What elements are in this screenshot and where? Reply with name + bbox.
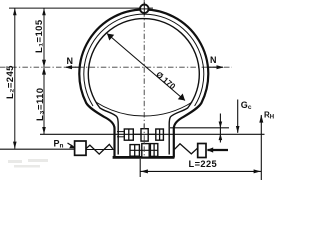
coil stubs left (117, 131, 125, 133)
svg-text:N: N (210, 55, 217, 65)
dimension gap arrows (219, 114, 221, 143)
coil F (150, 144, 157, 157)
wire through coils (130, 149, 158, 151)
spring right (175, 144, 198, 154)
force arrow N right (208, 66, 223, 68)
base slab (113, 156, 175, 159)
wire top extension line (9, 7, 153, 9)
armature block left (75, 141, 86, 155)
middle circle (thin) (84, 14, 204, 106)
node vertical centerline (dash-dot) (143, 0, 145, 157)
dimension L1 line (43, 8, 45, 67)
support line RH (260, 115, 262, 180)
force arrow Gc (237, 100, 239, 133)
svg-text:L₁=105: L₁=105 (34, 19, 45, 53)
armature block right (198, 144, 206, 158)
outer shell outline (79, 9, 208, 157)
dimension L2 line (14, 8, 16, 149)
node centerline through neck (143, 124, 145, 157)
dimension L3 line (43, 67, 45, 134)
inner shell outline (88, 19, 199, 155)
force arrow right (208, 149, 229, 151)
watermark smudge (8, 159, 48, 168)
wire left rail through coils y=134 (40, 133, 265, 135)
spring left (85, 144, 113, 154)
force arrow Pn (68, 143, 74, 147)
pole piece A (124, 129, 133, 140)
diameter arrow (107, 34, 185, 101)
coil D (130, 145, 139, 157)
svg-text:L₂=245: L₂=245 (5, 65, 16, 99)
bore floor arc (96, 102, 193, 116)
pole piece B (141, 129, 148, 141)
pole piece C (156, 129, 164, 140)
dimension L=225 (140, 170, 261, 172)
node horizontal centerline N-N (dash-dot) (0, 66, 232, 68)
svg-text:N: N (67, 56, 74, 66)
wire bottom extension (139, 159, 141, 177)
wire rail through pole pieces (124, 133, 163, 135)
force arrow N left (66, 66, 80, 68)
svg-text:L=225: L=225 (189, 159, 218, 169)
svg-text:L₃=110: L₃=110 (35, 88, 46, 121)
wire Pn force line (0, 148, 75, 150)
wire upper right rail y=128 (170, 127, 229, 129)
top ring circle (140, 5, 149, 14)
coil E (142, 144, 149, 158)
